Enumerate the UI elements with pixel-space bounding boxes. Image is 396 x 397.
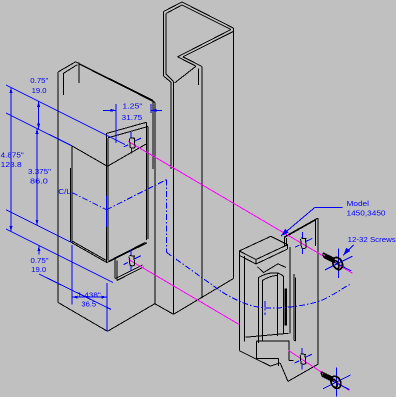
- svg-text:12-32 Screws: 12-32 Screws: [348, 237, 396, 244]
- drill marker plate top: [295, 232, 312, 254]
- svg-text:123.8: 123.8: [1, 162, 22, 169]
- svg-text:1.438": 1.438": [77, 292, 101, 299]
- frame long vertical edges: [171, 28, 233, 314]
- cutout lower section edge and bottom band: [72, 241, 147, 280]
- projection line lower: [129, 259, 240, 324]
- drill marker plate bottom: [295, 348, 312, 370]
- svg-text:0.75": 0.75": [31, 258, 50, 265]
- svg-text:4.875": 4.875": [1, 152, 25, 159]
- frame face sheet: [58, 62, 155, 304]
- dimension 4.875in 123.8mm: [1, 88, 25, 232]
- projection line upper: [128, 141, 352, 273]
- drill marker frame top: [124, 132, 141, 154]
- dimension 3.375in 86.0mm: [28, 128, 52, 225]
- frame bottom cut outline: [58, 279, 233, 332]
- svg-text:3.375": 3.375": [28, 169, 52, 176]
- svg-text:86.0: 86.0: [30, 178, 48, 185]
- svg-text:19.0: 19.0: [32, 88, 47, 95]
- frame top channel stop/backbend top cut: [164, 2, 234, 83]
- strike body outline: [239, 247, 317, 381]
- strike cutout opening in face: [106, 122, 148, 262]
- leader 12-32 Screws: [343, 237, 396, 255]
- dimension extension lines: [6, 85, 125, 309]
- svg-text:Model: Model: [347, 201, 370, 208]
- svg-text:19.0: 19.0: [31, 267, 46, 274]
- svg-text:31.75: 31.75: [122, 115, 143, 122]
- projection line lower right part: [289, 351, 350, 391]
- strike faceplate: [285, 218, 318, 364]
- cutout upper section edge: [71, 144, 146, 243]
- svg-text:1.25": 1.25": [122, 103, 143, 110]
- svg-text:1450,3450: 1450,3450: [347, 210, 386, 217]
- dimension 1.25in 31.75mm: [103, 103, 162, 143]
- svg-text:0.75": 0.75": [30, 78, 49, 85]
- centerline C/L dash-dot: [58, 180, 351, 315]
- svg-text:C/L: C/L: [58, 189, 71, 196]
- screw 12-32 upper: [322, 249, 352, 278]
- leader Model 1450,3450: [281, 201, 386, 236]
- screw 12-32 lower: [321, 368, 351, 397]
- dimension 0.75in 19.0mm bottom: [31, 246, 50, 274]
- dimension 0.75in 19.0mm top: [30, 78, 49, 129]
- strike body Model 1450 top slab: [239, 236, 287, 264]
- drill marker frame bottom: [124, 250, 141, 272]
- svg-text:36.5: 36.5: [81, 302, 96, 309]
- strike keeper cavity: [246, 264, 296, 366]
- dimension 1.438in 36.5mm: [72, 245, 107, 331]
